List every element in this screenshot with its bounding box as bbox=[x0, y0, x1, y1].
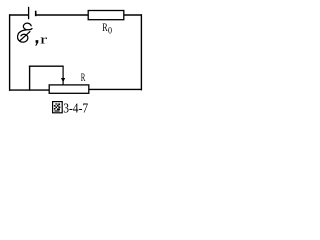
wire bottom-left segment bbox=[9, 89, 50, 91]
caption glyph TU: inner strokes bbox=[54, 103, 61, 111]
rheostat slider arrowhead bbox=[61, 78, 65, 82]
wire left vertical bbox=[9, 14, 11, 91]
rheostat R (box) bbox=[49, 85, 89, 93]
wire bottom-right segment bbox=[89, 88, 142, 90]
rheostat slider arm horizontal wire bbox=[29, 65, 64, 67]
label EMF script E bbox=[18, 23, 32, 42]
svg-text:r: r bbox=[40, 33, 48, 47]
battery cell E,r: short plate bbox=[35, 11, 37, 17]
label comma after script E bbox=[35, 40, 38, 46]
background bbox=[0, 0, 152, 120]
rheostat slider arm left vertical wire bbox=[29, 66, 31, 91]
wire battery to R0 bbox=[36, 14, 89, 16]
wire R0 to right corner bbox=[124, 14, 142, 16]
svg-text:3-4-7: 3-4-7 bbox=[63, 102, 88, 117]
rheostat slider arrow shaft bbox=[62, 66, 64, 85]
wire right vertical bbox=[140, 14, 142, 90]
svg-text:R: R bbox=[81, 72, 86, 84]
caption glyph TU (Chinese char for figure): outer box bbox=[53, 102, 63, 113]
resistor R0 (box) bbox=[88, 11, 124, 20]
label r (internal resistance) bbox=[40, 33, 48, 47]
battery cell E,r: long plate bbox=[28, 7, 30, 19]
svg-text:0: 0 bbox=[108, 26, 112, 36]
wire top-left segment bbox=[9, 14, 29, 16]
